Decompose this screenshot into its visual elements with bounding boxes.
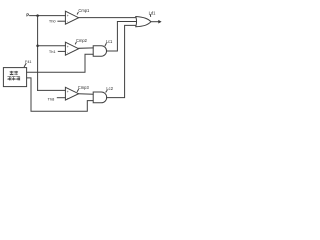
svg-text:+: + <box>67 45 69 49</box>
svg-text:-: - <box>67 96 69 100</box>
svg-text:Ld1: Ld1 <box>149 10 157 15</box>
svg-text:Cmp3: Cmp3 <box>78 85 90 90</box>
output wire with arrowhead <box>151 21 159 23</box>
box text row 1 (kanji) <box>10 71 18 75</box>
wire trunk to Cmp3 noninverting input <box>38 89 66 91</box>
wire trunk to Cmp2 noninverting input <box>38 45 66 47</box>
junction dot Cmp2 branch <box>36 44 39 47</box>
wire Cmp1 output to OR input 1 <box>79 17 136 19</box>
wire trunk vertical <box>37 16 39 91</box>
condition decision box 41 <box>3 68 26 87</box>
comparator Cmp3 <box>65 87 78 100</box>
box text row 2 (kanji) <box>8 77 20 81</box>
wire Cmp2 output to Lc1 upper input <box>79 47 94 49</box>
svg-text:+: + <box>67 90 69 94</box>
wire box output 1 to Lc1 lower input <box>27 54 93 72</box>
svg-text:Th1: Th1 <box>49 49 56 54</box>
AND gate Lc2 <box>93 92 107 103</box>
wire Lc2 output to OR input 3 <box>107 25 136 97</box>
wire Cmp3 output to Lc2 upper input <box>79 93 94 95</box>
wire box output 2 to Lc2 lower input <box>27 78 93 111</box>
OR gate Ld1 <box>136 17 151 27</box>
AND gate Lc1 <box>93 46 106 57</box>
svg-text:Th8: Th8 <box>48 96 55 101</box>
svg-text:+: + <box>67 14 69 18</box>
svg-text:P: P <box>26 13 29 18</box>
comparator Cmp2 <box>65 42 78 55</box>
svg-text:Th0: Th0 <box>49 19 57 24</box>
junction dot P trunk branch <box>36 14 39 17</box>
svg-text:Cmp1: Cmp1 <box>78 8 90 13</box>
wire P to Cmp1 noninverting input <box>30 15 66 17</box>
wire Lc1 output to OR input 2 <box>107 22 136 52</box>
svg-text:Cmp2: Cmp2 <box>76 38 88 43</box>
comparator Cmp1 <box>65 11 78 24</box>
